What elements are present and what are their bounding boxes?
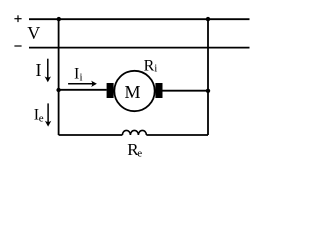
svg-text:i: i xyxy=(80,72,83,84)
svg-text:R: R xyxy=(144,57,155,74)
svg-text:I: I xyxy=(36,60,42,80)
svg-text:M: M xyxy=(125,82,141,102)
svg-text:V: V xyxy=(27,23,40,43)
svg-text:e: e xyxy=(137,148,142,160)
svg-text:i: i xyxy=(154,62,157,74)
svg-text:e: e xyxy=(39,112,44,124)
